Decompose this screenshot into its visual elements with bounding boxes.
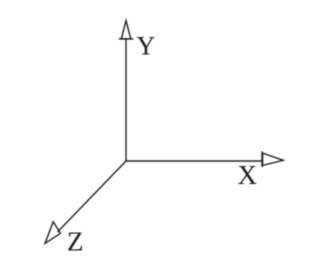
svg-text:Z: Z bbox=[67, 227, 84, 257]
X axis arrowhead base bar bbox=[261, 151, 263, 167]
Y axis arrowhead base bar bbox=[119, 38, 134, 40]
svg-text:X: X bbox=[238, 160, 258, 190]
X axis wire bbox=[126, 160, 262, 162]
X axis arrowhead bbox=[263, 153, 284, 165]
Z axis wire bbox=[58, 161, 127, 232]
Y axis wire bbox=[125, 39, 127, 161]
Z axis arrowhead bbox=[45, 222, 61, 244]
Y axis arrowhead bbox=[121, 21, 131, 39]
svg-text:Y: Y bbox=[137, 32, 156, 61]
